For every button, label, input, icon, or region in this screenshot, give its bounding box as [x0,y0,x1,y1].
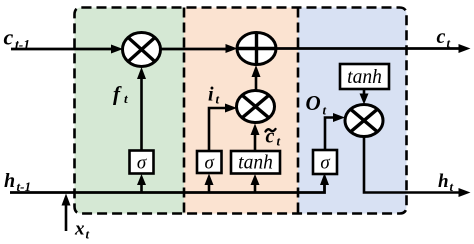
sigma box S1 [130,151,154,174]
svg-text:t: t [124,91,128,106]
multiply M2 (input) [237,91,275,123]
wire sigma1 input from h-line [140,183,143,193]
dashed border outer [75,8,407,214]
multiply M3 (output) [345,105,383,137]
label x_t [74,219,90,242]
wire multiply2 to plus [255,75,258,91]
svg-text:t: t [277,134,281,149]
svg-text:i: i [208,84,214,106]
wire h-line [10,183,325,193]
input-gate region (orange) [184,8,298,214]
wire O: sigma3 to multiply3 [325,118,334,151]
label O_t [306,91,327,118]
sigma box S3 [313,150,337,174]
svg-text:O: O [306,91,321,115]
forget-gate region (green) [75,8,185,214]
wire c-line input segment [11,48,112,51]
tanh box T2 [231,151,280,174]
add node (plus) [237,33,276,65]
svg-text:σ: σ [137,153,147,174]
label h_t-1 [4,170,31,194]
wire tanh3 to multiply3 [363,89,366,95]
svg-text:t-1: t-1 [15,37,30,52]
label f_t [113,82,128,107]
svg-text:t-1: t-1 [17,179,31,194]
wire ctilde: tanh2 to multiply2 [254,133,257,151]
wire i: sigma2 to multiply2 [209,108,226,151]
tanh box T3 [340,64,389,89]
output-gate region (blue) [298,8,407,214]
label c-tilde_t [266,126,281,149]
svg-text:σ: σ [320,153,330,174]
multiply M1 (forget) [123,33,161,67]
svg-text:h: h [4,170,15,192]
wire h_t output from multiply3 [364,137,459,193]
svg-text:t: t [323,103,327,118]
svg-text:c: c [4,25,14,50]
dashed divider green/orange [183,8,186,214]
wire c-line multiply1 to plus [161,48,227,51]
svg-text:t: t [86,227,90,242]
wire c-line plus to output [276,47,459,50]
svg-text:t: t [450,179,454,194]
wire sigma2 input from h-line [208,183,211,193]
svg-text:h: h [438,171,449,192]
label c_t [437,26,451,51]
svg-text:t: t [447,36,451,51]
label i_t [208,84,220,107]
label h_t [438,171,454,194]
label c_t-1 [4,25,31,53]
wire f: sigma1 to multiply1 [140,77,143,151]
wire tanh2 input from h-line [254,183,257,193]
svg-text:tanh: tanh [347,67,382,88]
sigma box S2 [197,151,222,174]
svg-text:t: t [216,92,220,107]
svg-text:x: x [74,219,85,240]
dashed divider orange/blue [297,8,300,214]
wire x_t input [65,203,68,231]
svg-text:c: c [437,26,446,48]
svg-text:tanh: tanh [238,153,273,174]
svg-text:σ: σ [205,153,215,174]
